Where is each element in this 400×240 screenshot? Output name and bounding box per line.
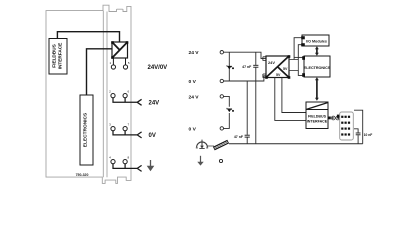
svg-text:ELECTRONICS: ELECTRONICS: [304, 66, 331, 70]
DC/DC left pin stubs: [263, 57, 266, 61]
svg-text:I/O Modules: I/O Modules: [306, 39, 327, 43]
DC/DC converter PS2: [265, 55, 290, 79]
electronics supply contact squares: [302, 56, 305, 60]
earth rail (bottom): [229, 143, 363, 145]
wire 0V rail to DC/DC: [224, 76, 267, 81]
terminal circle 24V field: [220, 95, 223, 98]
data bus arrow I/O modules to electronics: [315, 46, 319, 55]
svg-text:FIELDBUS: FIELDBUS: [52, 44, 57, 67]
terminal 3: [111, 127, 115, 131]
terminal 1: [111, 65, 115, 69]
svg-text:24 V: 24 V: [189, 94, 200, 100]
DC/DC bottom output wires to fieldbus interface: [282, 78, 306, 113]
earth clamp symbol: [196, 140, 208, 149]
capacitor C2 plates: [245, 134, 250, 136]
svg-text:5V: 5V: [276, 73, 281, 77]
svg-text:ELECTRONICS: ELECTRONICS: [83, 112, 89, 147]
electronics box U2 (left): [80, 95, 93, 165]
svg-text:5V: 5V: [283, 67, 288, 71]
wire DC/DC to I/O modules contact B: [298, 45, 302, 60]
terminal circle 0V system: [220, 79, 223, 82]
fieldbus interface box U1 (left): [49, 39, 67, 75]
svg-text:24V/0V: 24V/0V: [148, 65, 168, 71]
wire clamp to DIN rail: [207, 145, 214, 147]
fieldbus connector J1: [337, 112, 353, 140]
module inner separator lines: [102, 11, 104, 178]
wire branch to electronics bottom-left: [298, 71, 304, 76]
wire 0V field: [224, 113, 230, 128]
bus wire row3 with clamp fork: [113, 131, 142, 138]
terminal 6: [123, 94, 127, 98]
wire 24V field: [224, 96, 230, 106]
svg-text:FIELDBUS: FIELDBUS: [308, 114, 327, 118]
terminal 7: [123, 127, 127, 131]
capacitor C2 branch 0V to earth: [246, 81, 248, 135]
bus wire row4 with clamp fork: [113, 164, 142, 172]
data bus arrow electronics to fieldbus interface: [315, 77, 319, 100]
svg-text:24 V: 24 V: [189, 50, 200, 56]
svg-text:47 nF: 47 nF: [234, 135, 244, 139]
svg-text:10 nF: 10 nF: [364, 133, 373, 137]
electronics box (right): [304, 56, 331, 77]
ground arrow row4: [147, 160, 155, 171]
terminal 5: [123, 65, 127, 69]
wire connector shield to earth: [354, 110, 363, 144]
svg-text:750-320: 750-320: [76, 173, 89, 177]
bus wire row2 with clamp fork: [113, 98, 142, 106]
wire DC/DC to I/O modules contact A: [294, 38, 302, 60]
svg-text:47 nF: 47 nF: [242, 65, 252, 69]
svg-text:INTERFACE: INTERFACE: [307, 119, 328, 123]
fieldbus interface right contact square: [328, 117, 331, 120]
fieldbus interface box (right) with isolation section: [306, 102, 328, 129]
suppressor branch system: [228, 52, 230, 81]
power supply unit PS1 (left module): [111, 41, 128, 59]
wire connector to capacitor C3: [354, 129, 358, 144]
module housing outline (left coupler): [46, 5, 131, 183]
I/O modules box: [302, 35, 329, 46]
wire electronics to power unit: [87, 49, 113, 95]
terminal 2: [111, 94, 115, 98]
svg-text:24V: 24V: [149, 101, 160, 107]
capacitor C3 plates: [356, 132, 361, 134]
svg-text:0 V: 0 V: [189, 79, 197, 85]
terminal circle 0V field: [220, 127, 223, 130]
capacitor C1 plates: [253, 64, 258, 66]
functional earth arrow: [197, 156, 203, 166]
svg-text:0 V: 0 V: [189, 126, 197, 132]
TVS suppressor V2: [227, 108, 234, 112]
DC/DC right pin block: [289, 60, 298, 71]
terminal 4: [111, 160, 115, 164]
svg-text:0V: 0V: [149, 133, 156, 139]
terminal 8: [123, 160, 127, 164]
I/O modules bus contact squares: [301, 36, 305, 39]
bidirectional link symbols to connector: [331, 116, 339, 120]
capacitor C1 branch 24V to earth: [255, 52, 257, 65]
terminal circle 24V system: [220, 51, 223, 54]
DIN rail symbol: [214, 142, 228, 149]
svg-text:24V: 24V: [268, 60, 275, 65]
wire fieldbus-interface to power unit: [57, 32, 119, 42]
wire branch to electronics top-left: [294, 56, 304, 58]
TVS suppressor V1: [227, 65, 234, 69]
node circle (rail potential): [219, 159, 222, 162]
stub wires power unit to terminals 1,5: [112, 58, 114, 65]
wire 24V rail to DC/DC: [224, 52, 267, 58]
svg-text:INTERFACE: INTERFACE: [58, 43, 63, 70]
